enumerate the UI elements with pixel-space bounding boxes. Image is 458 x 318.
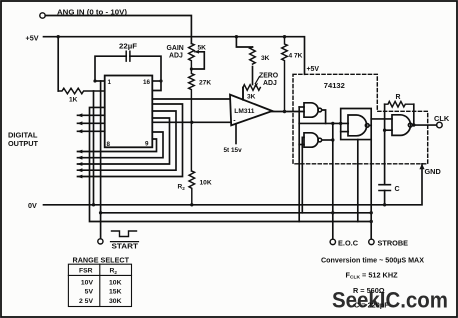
- node EOC rail: [331, 211, 334, 214]
- node gate2 output riser: [331, 138, 334, 141]
- gate U2d nand: [392, 115, 410, 136]
- node STROBE rail a: [370, 211, 373, 214]
- svg-text:START: START: [112, 242, 139, 251]
- svg-text:ZERO: ZERO: [259, 73, 279, 80]
- wire gate1 output jog: [322, 110, 326, 123]
- node loop left junction: [339, 122, 342, 125]
- arrows digital outputs: [77, 113, 82, 178]
- terminal CLK: [437, 122, 443, 128]
- node STROBE rail b: [370, 220, 373, 223]
- resistor R 1K: [58, 88, 104, 94]
- node pin1 / cap: [93, 79, 96, 82]
- wire CLK output: [412, 124, 436, 126]
- wire C to 0V: [384, 191, 386, 205]
- wire left bus V3 to START: [100, 81, 102, 239]
- node output pullup: [283, 110, 286, 113]
- wire wrap output 1: [78, 104, 183, 177]
- wire rail 213: [101, 212, 372, 214]
- svg-text:C: C: [395, 185, 400, 193]
- svg-text:3K: 3K: [247, 94, 256, 101]
- svg-text:16: 16: [143, 79, 151, 86]
- svg-text:9: 9: [145, 141, 149, 148]
- svg-text:FSR: FSR: [79, 268, 93, 275]
- node +5V to zero-adj branch: [235, 35, 238, 38]
- wire 0V rail to GND riser: [44, 164, 423, 205]
- wire R right drop: [413, 104, 415, 125]
- IC U1 body: [105, 76, 153, 148]
- node C 0V: [383, 203, 386, 206]
- svg-text:GND: GND: [425, 167, 441, 176]
- potentiometer GAIN ADJ 5K: [189, 44, 195, 70]
- wire wrap output 4: [78, 132, 164, 158]
- dashed box 74132: [293, 74, 428, 164]
- terminal STROBE: [369, 239, 374, 244]
- node 5K bottom: [190, 67, 193, 70]
- wire zero-adj branch from +5V: [236, 37, 252, 47]
- svg-text:10K: 10K: [109, 279, 122, 286]
- svg-text:5V: 5V: [85, 289, 94, 296]
- node R2 to 0V: [190, 203, 193, 206]
- svg-text:ANG IN (0 to - 10V): ANG IN (0 to - 10V): [57, 7, 128, 16]
- wire digital output c: [78, 130, 105, 132]
- wire pin1 stub: [95, 80, 105, 82]
- resistor R2: [189, 171, 195, 205]
- wire gate2 upper stub drop: [302, 137, 304, 213]
- wire EOC riser: [332, 123, 334, 239]
- wire gate3 input line: [299, 122, 348, 124]
- svg-text:LM311: LM311: [234, 108, 254, 115]
- wire gate1 upper stub: [299, 106, 304, 108]
- svg-text:ADJ: ADJ: [263, 80, 277, 87]
- svg-text:+5V: +5V: [26, 34, 39, 43]
- wire 3K to zero pot: [252, 67, 254, 85]
- wire left bus V1 to rail 221: [90, 107, 372, 221]
- wire ANG IN to gain pot top: [45, 16, 191, 44]
- svg-text:10V: 10V: [81, 279, 94, 286]
- svg-text:5K: 5K: [198, 45, 207, 52]
- wire IC to comparator plus input: [152, 98, 230, 100]
- wire LM311 supply stem: [235, 124, 237, 144]
- wire gate2 output: [322, 139, 333, 141]
- wire gate3 feedback loop: [341, 109, 372, 140]
- node riser EOC junction: [331, 122, 334, 125]
- svg-text:27K: 27K: [199, 80, 211, 87]
- svg-text:+5V: +5V: [307, 66, 320, 73]
- wiper arrow zero adj: [255, 77, 259, 84]
- wire gate3 output stub: [369, 124, 371, 126]
- svg-text:GAIN: GAIN: [167, 45, 184, 52]
- svg-text:0V: 0V: [28, 201, 37, 210]
- node pin16: [159, 79, 162, 82]
- wire gate1 to gate2 link: [298, 107, 300, 222]
- op-amp comparator LM311: [230, 95, 272, 126]
- svg-text:ADJ: ADJ: [169, 53, 183, 60]
- wire digital output b: [78, 122, 105, 124]
- wire 22uF cap loop left: [95, 56, 126, 81]
- terminal EOC: [330, 239, 335, 244]
- wire LM311 output: [272, 111, 304, 113]
- svg-text:1K: 1K: [69, 97, 78, 104]
- ground GND arrow: [419, 164, 424, 169]
- capacitor C plates: [379, 185, 390, 191]
- svg-text:3K: 3K: [261, 55, 270, 62]
- svg-text:10K: 10K: [200, 180, 212, 187]
- wire +5V drop to 1K: [57, 37, 59, 91]
- svg-text:4 7K: 4 7K: [289, 53, 303, 60]
- svg-text:15K: 15K: [109, 289, 122, 296]
- wire STROBE riser: [370, 140, 372, 240]
- svg-text:SeekIC.com: SeekIC.com: [332, 287, 448, 312]
- wire mid drop: [357, 140, 359, 222]
- resistor R feedback: [385, 101, 414, 107]
- wire R left drop to C: [384, 104, 386, 185]
- node minus input / R2: [190, 121, 193, 124]
- wire gate4 lower input: [385, 129, 392, 131]
- wire left bus V2 to 0V: [93, 91, 95, 205]
- svg-text:RANGE SELECT: RANGE SELECT: [73, 255, 130, 264]
- terminal START: [98, 239, 103, 244]
- svg-text:74132: 74132: [324, 81, 345, 90]
- node V2 to 0V: [92, 203, 95, 206]
- wire wrap output 5: [78, 139, 157, 152]
- svg-text:2 5V: 2 5V: [79, 298, 93, 305]
- resistor 3K upper: [250, 47, 256, 64]
- gate U2c nand: [348, 115, 367, 136]
- wire wrap output 2: [78, 111, 177, 170]
- node +5V to 4.7K: [283, 35, 286, 38]
- svg-text:1: 1: [108, 79, 112, 86]
- wire zero pot left leg: [242, 88, 244, 101]
- node R left gate4 input: [383, 129, 386, 132]
- symbol START pulse: [112, 231, 137, 237]
- svg-text:30K: 30K: [109, 298, 122, 305]
- svg-text:STROBE: STROBE: [378, 238, 409, 247]
- wire wrap output 3: [78, 118, 170, 164]
- svg-text:Conversion time ~ 500µS MAX: Conversion time ~ 500µS MAX: [321, 256, 424, 265]
- wire pin16 stub: [152, 80, 161, 82]
- resistor 4.7K: [282, 37, 288, 112]
- wire +5V rail: [44, 37, 305, 75]
- terminal ANG IN: [40, 13, 45, 18]
- svg-text:OUTPUT: OUTPUT: [8, 139, 39, 148]
- node V3 rail 213: [99, 211, 102, 214]
- gate U2a nand: [304, 103, 318, 117]
- potentiometer ZERO ADJ 3K: [243, 85, 260, 91]
- resistor 27K: [189, 69, 195, 171]
- capacitor C 22uF plates: [126, 51, 130, 61]
- wire IC to comparator minus input: [152, 121, 231, 123]
- svg-text:22µF: 22µF: [119, 44, 138, 51]
- switch bar START: [111, 241, 139, 243]
- svg-text:5t 15v: 5t 15v: [224, 147, 243, 154]
- node R right output: [412, 123, 415, 126]
- node +5V to 1K: [57, 35, 60, 38]
- svg-text:E.O.C: E.O.C: [338, 238, 359, 247]
- wiper loop 5K: [191, 52, 204, 69]
- wire zero pot left leg into plus edge: [242, 88, 244, 100]
- wire loop to gate4 upper input: [371, 118, 392, 120]
- wire 22uF cap loop right: [130, 56, 161, 90]
- gate U2b nand: [304, 133, 318, 147]
- svg-text:CLK: CLK: [434, 114, 450, 123]
- wire gate3 lower input stub: [341, 131, 349, 133]
- svg-text:R: R: [396, 94, 401, 101]
- wire digital output a: [78, 114, 105, 116]
- svg-text:8: 8: [107, 141, 111, 148]
- wire gate2 lower stub: [299, 144, 304, 146]
